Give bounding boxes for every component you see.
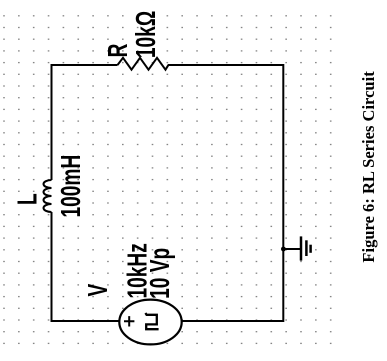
svg-text:10 Vp: 10 Vp	[144, 248, 176, 299]
svg-text:V: V	[82, 284, 114, 297]
svg-text:Figure 6: RL Series Circuit: Figure 6: RL Series Circuit	[359, 71, 378, 263]
svg-text:10kΩ: 10kΩ	[131, 11, 163, 58]
svg-text:100mH: 100mH	[55, 155, 87, 218]
svg-text:R: R	[102, 44, 134, 58]
svg-text:L: L	[12, 193, 44, 205]
